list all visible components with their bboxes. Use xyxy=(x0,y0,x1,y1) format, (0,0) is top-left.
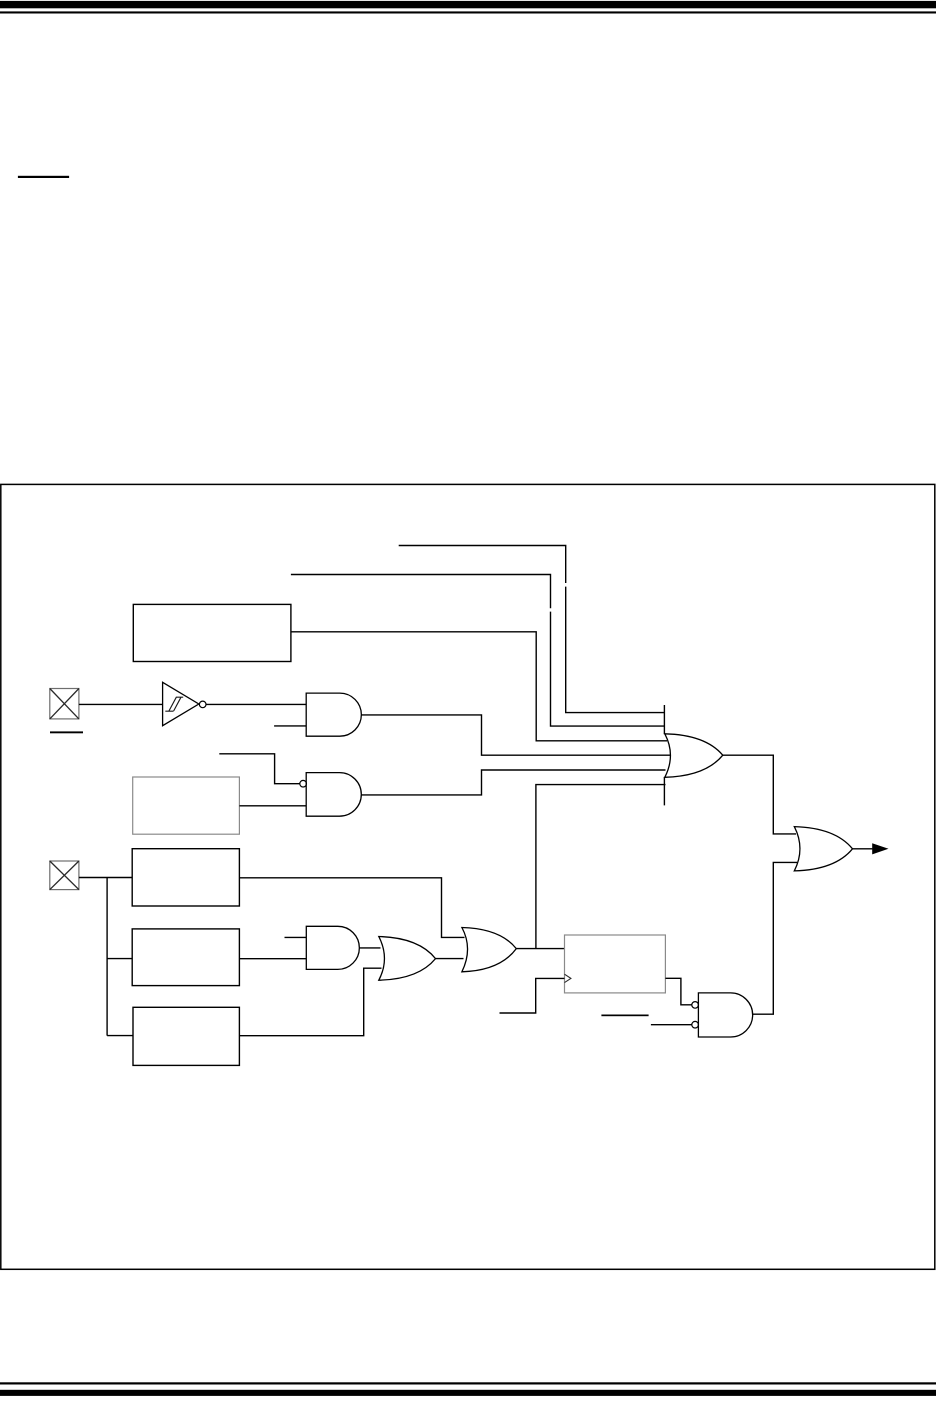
wire G1 output to G4 top input xyxy=(723,755,796,834)
section heading overline xyxy=(18,176,69,178)
wire B4 to A3 xyxy=(239,958,306,960)
A2 input bubble xyxy=(300,780,307,787)
wire G2 output to G3 xyxy=(436,958,464,960)
wire X1 to schmitt xyxy=(79,703,163,705)
box B4 xyxy=(132,929,239,986)
schmitt output bubble xyxy=(199,701,206,708)
schmitt hysteresis glyph xyxy=(165,697,183,711)
pin pad X1 xyxy=(50,689,79,719)
figure frame xyxy=(1,484,935,1269)
AND gate A2 xyxy=(306,773,361,817)
AND gate A4 xyxy=(698,993,752,1037)
wire net1 top (with gap) xyxy=(399,546,566,584)
A4 input bubble 1 xyxy=(692,1002,699,1009)
wire T0 flag to A2 bubble xyxy=(219,754,299,784)
wire A1 output to OR input 4 xyxy=(361,715,670,755)
wire branch to B4 xyxy=(107,958,132,960)
wire B2 to A2 xyxy=(239,805,306,807)
wire into A4 second bubble xyxy=(651,1024,692,1026)
OR gate G1 xyxy=(665,734,723,778)
box B5 xyxy=(133,1007,239,1065)
AND gate A3 xyxy=(306,926,359,969)
header top thick rule xyxy=(0,1,936,8)
wire G3 output to flip-flop D input xyxy=(516,948,564,950)
OR gate G1 input extender xyxy=(663,705,665,805)
wire X2 to B3 xyxy=(79,877,132,879)
wire A1 enable stub xyxy=(274,725,306,727)
pin pad X2 xyxy=(50,861,79,890)
output arrowhead xyxy=(872,843,888,854)
signal overline xyxy=(601,1015,648,1017)
wire net2 (with gap) xyxy=(291,575,551,609)
footer thin rule xyxy=(0,1382,936,1384)
wire B5 output to G2 lower input xyxy=(239,968,381,1035)
wire peripheral branch to OR input 6 xyxy=(536,785,666,949)
timer box B2 xyxy=(133,777,240,834)
wire A3 output to G2 xyxy=(359,947,380,949)
wire Q output to A4 first bubble xyxy=(665,978,692,1005)
OR gate G3 xyxy=(462,928,516,972)
footer thick rule xyxy=(0,1390,936,1396)
A4 input bubble 2 xyxy=(692,1021,699,1028)
wire X2 branch vertical xyxy=(106,878,108,1036)
flip-flop clock chevron xyxy=(565,974,571,982)
register box B1 xyxy=(133,604,291,661)
flip-flop U2 xyxy=(565,935,666,993)
wire G4 output xyxy=(853,848,873,850)
schmitt trigger U1 xyxy=(163,682,199,725)
wire A2 output to OR input 5 xyxy=(361,770,665,795)
pin name overline xyxy=(50,731,83,733)
OR gate G4 xyxy=(794,827,852,871)
wire A4 output to G4 bottom input xyxy=(753,862,797,1014)
wire B3 output to G3 top input xyxy=(239,878,464,938)
wire A3 enable stub xyxy=(285,936,307,938)
AND gate A1 xyxy=(306,693,361,736)
box B3 xyxy=(132,849,239,906)
header thin rule xyxy=(0,11,936,13)
wire schmitt to AND1 xyxy=(207,703,307,705)
wire B1 output to OR input 3 xyxy=(291,632,667,741)
wire clock input xyxy=(500,978,565,1013)
wire branch to B5 xyxy=(107,1035,133,1037)
OR gate G2 xyxy=(379,937,436,981)
